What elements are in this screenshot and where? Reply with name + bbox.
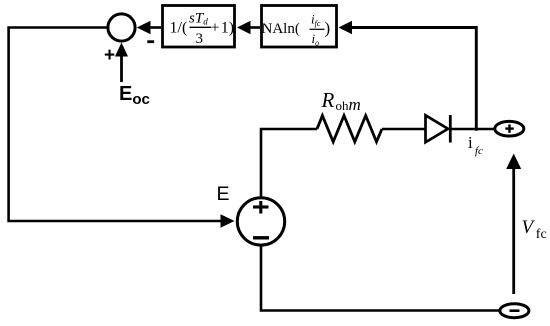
svg-text:+1): +1) <box>211 20 235 37</box>
resistor Rohm zigzag <box>317 116 382 142</box>
terminal minus output <box>500 304 529 318</box>
block G2 activation loss NAln(ifc/io) <box>262 6 337 48</box>
minus sign inside source E <box>253 236 269 239</box>
diode D1 cathode bar <box>449 115 452 143</box>
arrow Vfc measurement <box>512 167 515 294</box>
svg-text:E: E <box>217 183 230 205</box>
minus sign of summing junction <box>147 40 154 43</box>
svg-text:oh: oh <box>336 98 350 113</box>
wire from block G2 to block G1 <box>249 26 260 29</box>
wire from source E top up and right to resistor <box>261 129 317 197</box>
arrowhead into source E <box>221 214 235 228</box>
wire E_oc input arrow into summing junction <box>120 55 123 82</box>
terminal plus output <box>495 121 524 136</box>
svg-text:fc: fc <box>475 145 483 157</box>
svg-text:fc: fc <box>536 227 547 242</box>
svg-text:+: + <box>104 45 115 66</box>
diode D1 triangle <box>426 115 449 142</box>
svg-text:R: R <box>321 88 335 112</box>
arrowhead into summing junction <box>137 21 151 35</box>
wire from diode to plus terminal, node ifc <box>450 128 495 131</box>
svg-text:3: 3 <box>196 31 204 47</box>
svg-text:1/(: 1/( <box>170 20 188 37</box>
svg-text:m: m <box>349 95 361 114</box>
wire from block G1 to summing junction <box>149 26 161 29</box>
voltage source E <box>237 198 284 245</box>
svg-text:i: i <box>468 133 473 152</box>
arrowhead into block G2 <box>339 21 353 35</box>
wire feedback from node ifc up and left into block G2 <box>351 28 476 131</box>
svg-text:): ) <box>325 19 331 38</box>
wire from source E bottom down and right to minus terminal <box>261 245 500 311</box>
summing junction S1 <box>108 14 135 41</box>
wire feedback-left loop from summing junction output down and right to source E <box>9 28 221 222</box>
arrowhead into block G1 <box>237 21 251 35</box>
wire from resistor to diode D1 <box>382 128 426 131</box>
block G1 transfer function 1/(sTd/3+1) <box>163 6 235 48</box>
plus sign inside source E <box>253 205 269 208</box>
svg-text:NAln(: NAln( <box>262 21 300 37</box>
